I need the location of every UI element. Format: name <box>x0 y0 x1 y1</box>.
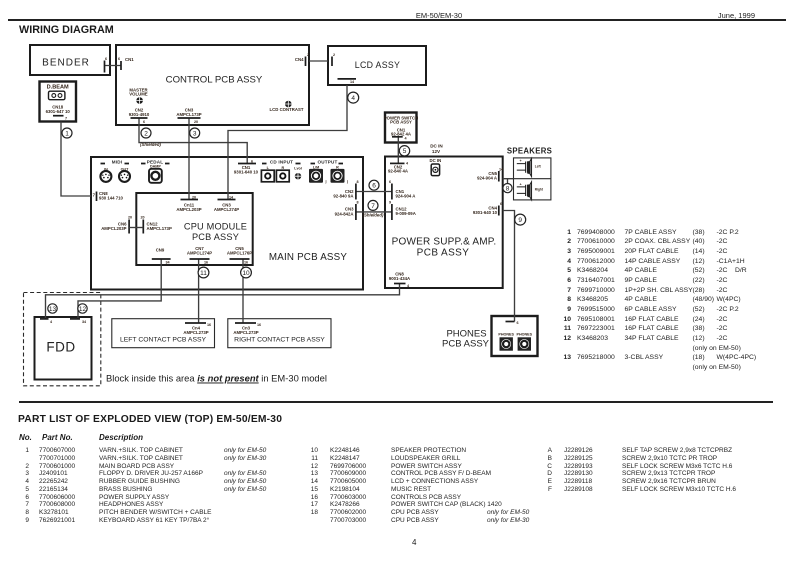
svg-text:9301-640 10: 9301-640 10 <box>473 210 498 215</box>
svg-text:Right: Right <box>535 188 544 192</box>
svg-text:PCB ASSY: PCB ASSY <box>417 248 470 259</box>
svg-text:LEFT CONTACT PCB ASSY: LEFT CONTACT PCB ASSY <box>120 337 207 344</box>
svg-text:34: 34 <box>82 320 87 324</box>
svg-text:9-009-09A: 9-009-09A <box>396 211 416 216</box>
svg-text:AMPCL273P: AMPCL273P <box>233 330 258 335</box>
svg-text:16: 16 <box>244 261 248 265</box>
svg-text:14: 14 <box>350 80 355 84</box>
svg-text:92-840 9A: 92-840 9A <box>333 194 353 199</box>
svg-text:j: j <box>346 180 348 184</box>
svg-text:8: 8 <box>356 180 358 184</box>
svg-text:3: 3 <box>193 130 197 137</box>
svg-text:9001-434A: 9001-434A <box>389 276 410 281</box>
svg-text:PHONES: PHONES <box>498 333 514 337</box>
svg-text:AMPCL173P: AMPCL173P <box>176 112 201 117</box>
svg-text:LCD ASSY: LCD ASSY <box>355 60 400 70</box>
svg-text:5: 5 <box>403 148 407 155</box>
svg-text:6: 6 <box>389 180 391 184</box>
svg-text:Lvol: Lvol <box>294 167 302 171</box>
svg-text:4: 4 <box>406 162 409 166</box>
svg-text:13: 13 <box>49 306 57 313</box>
svg-text:7: 7 <box>65 117 67 121</box>
svg-text:AMPCL203P: AMPCL203P <box>101 226 126 231</box>
svg-text:DC IN: DC IN <box>430 158 442 163</box>
svg-text:9: 9 <box>389 201 391 205</box>
svg-text:8: 8 <box>506 186 510 193</box>
svg-text:20: 20 <box>140 216 144 220</box>
svg-text:L/M: L/M <box>313 166 319 170</box>
svg-text:PCB ASSY: PCB ASSY <box>192 232 239 242</box>
svg-text:AMPCL203P: AMPCL203P <box>176 207 201 212</box>
svg-text:OUTPUT: OUTPUT <box>317 160 337 165</box>
svg-text:CN4: CN4 <box>295 57 304 62</box>
svg-text:Left: Left <box>535 164 542 168</box>
svg-text:SPEAKERS: SPEAKERS <box>507 147 552 156</box>
svg-text:MIDI: MIDI <box>112 160 123 165</box>
svg-text:VOLUME: VOLUME <box>129 92 148 97</box>
svg-text:+: + <box>520 159 522 163</box>
svg-text:Block inside this area is not: Block inside this area is not present in… <box>106 373 327 384</box>
svg-text:POWER SUPP.& AMP.: POWER SUPP.& AMP. <box>392 237 497 248</box>
svg-text:CPU MODULE: CPU MODULE <box>184 222 247 232</box>
svg-text:2: 2 <box>144 130 148 137</box>
svg-text:CONTROL PCB ASSY: CONTROL PCB ASSY <box>166 75 263 86</box>
svg-text:6: 6 <box>105 57 107 61</box>
svg-text:LCD CONTRAST: LCD CONTRAST <box>270 107 304 112</box>
svg-text:CN1: CN1 <box>125 57 134 62</box>
svg-text:10: 10 <box>242 270 250 277</box>
svg-text:924-842A: 924-842A <box>335 212 354 217</box>
svg-text:RIGHT CONTACT PCB ASSY: RIGHT CONTACT PCB ASSY <box>234 337 325 344</box>
svg-text:CD INPUT: CD INPUT <box>270 160 293 165</box>
svg-text:7: 7 <box>93 193 96 198</box>
svg-text:12V: 12V <box>432 149 441 154</box>
svg-text:6: 6 <box>251 160 253 164</box>
svg-text:9: 9 <box>518 217 522 224</box>
svg-text:9301-4910: 9301-4910 <box>129 112 150 117</box>
svg-text:9301-640 10: 9301-640 10 <box>234 169 259 174</box>
svg-text:PCB ASSY: PCB ASSY <box>442 339 490 350</box>
svg-text:CN9: CN9 <box>156 248 165 253</box>
svg-text:34: 34 <box>165 261 170 265</box>
svg-text:DC IN: DC IN <box>430 144 443 149</box>
svg-text:16: 16 <box>257 323 261 327</box>
svg-text:AMPCL273P: AMPCL273P <box>183 330 208 335</box>
svg-text:R: R <box>336 166 339 170</box>
svg-text:j: j <box>324 180 326 184</box>
svg-text:924-904 A: 924-904 A <box>396 194 416 199</box>
svg-text:AMPCL274P: AMPCL274P <box>187 250 212 255</box>
svg-text:6: 6 <box>143 120 145 124</box>
svg-text:4: 4 <box>404 137 407 141</box>
svg-text:4: 4 <box>50 320 53 324</box>
svg-text:AMPCL274P: AMPCL274P <box>214 207 239 212</box>
svg-text:+: + <box>520 182 522 186</box>
svg-text:(Shielded): (Shielded) <box>140 142 161 147</box>
svg-text:16: 16 <box>207 323 211 327</box>
svg-text:1: 1 <box>65 130 69 137</box>
svg-text:924-904 A: 924-904 A <box>477 176 497 181</box>
svg-text:MAIN PCB ASSY: MAIN PCB ASSY <box>269 252 348 263</box>
svg-text:2: 2 <box>307 53 309 57</box>
svg-text:FDD: FDD <box>46 340 75 355</box>
svg-text:PHONES: PHONES <box>517 333 533 337</box>
svg-text:BENDER: BENDER <box>42 58 90 69</box>
svg-text:6: 6 <box>500 202 502 206</box>
svg-text:20: 20 <box>194 120 198 124</box>
svg-text:92-840 4A: 92-840 4A <box>388 168 408 173</box>
svg-text:6: 6 <box>516 321 518 325</box>
svg-text:6: 6 <box>372 183 376 190</box>
svg-text:20: 20 <box>128 216 132 220</box>
svg-text:20: 20 <box>192 196 196 200</box>
svg-text:92-842 4A: 92-842 4A <box>391 131 411 136</box>
svg-text:7: 7 <box>371 203 375 210</box>
svg-text:930 144 710: 930 144 710 <box>99 196 124 201</box>
svg-text:8: 8 <box>356 201 358 205</box>
svg-text:11: 11 <box>200 270 207 277</box>
svg-text:2: 2 <box>333 53 335 57</box>
svg-text:16: 16 <box>204 261 208 265</box>
svg-text:AMPCL176P: AMPCL176P <box>227 250 252 255</box>
svg-text:D.BEAM: D.BEAM <box>47 85 69 91</box>
svg-text:PCB ASSY: PCB ASSY <box>390 119 412 124</box>
svg-text:12: 12 <box>79 306 87 313</box>
svg-text:6: 6 <box>118 57 120 61</box>
svg-text:(Shielded): (Shielded) <box>363 213 384 218</box>
svg-text:AMPCL173P: AMPCL173P <box>147 226 172 231</box>
svg-text:6301-647 10: 6301-647 10 <box>46 109 71 114</box>
svg-text:4: 4 <box>351 95 355 102</box>
